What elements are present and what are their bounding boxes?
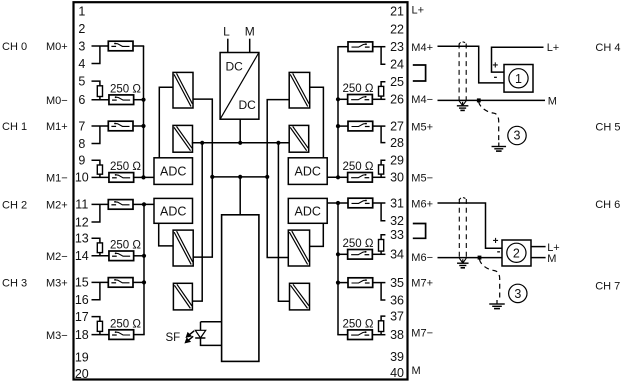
- junction dots on CH4/CH5 bus: [336, 97, 340, 179]
- svg-text:L+: L+: [547, 42, 560, 54]
- svg-text:17: 17: [75, 310, 89, 324]
- external jumper pins 24-25: [413, 65, 426, 81]
- wire pin 7 to filter: [92, 125, 109, 127]
- svg-text:3: 3: [78, 39, 85, 53]
- wire pin 37 to resistor: [381, 316, 385, 321]
- wire filter F7 to bus: [133, 125, 144, 127]
- svg-text:7: 7: [78, 119, 85, 133]
- svg-text:1: 1: [78, 4, 85, 18]
- wire barrier B4 right to vertical C: [192, 143, 202, 301]
- wire transducer plus to L+: [492, 47, 544, 72]
- wire ADC U3 top to barrier B5 right: [310, 87, 324, 158]
- resistor 250 Ohm CH4: [379, 86, 384, 96]
- svg-text:31: 31: [390, 196, 404, 210]
- svg-text:M: M: [245, 25, 255, 39]
- wire filter F11 to bus: [133, 203, 145, 205]
- resistor 250 Ohm CH5: [379, 165, 384, 174]
- svg-text:CH 5: CH 5: [595, 121, 620, 133]
- filter F31 (M6+): [348, 198, 373, 208]
- filter F34 (M6-): [348, 250, 373, 260]
- transducer 1 box: [504, 65, 533, 93]
- svg-text:M1+: M1+: [46, 121, 68, 133]
- wire filter F15 to bus: [133, 281, 145, 283]
- svg-text:19: 19: [75, 351, 89, 365]
- multiplexer bus CH6/CH7: [327, 203, 338, 335]
- wire pin 38 through resistor node to filter: [372, 334, 385, 336]
- svg-text:250 Ω: 250 Ω: [110, 240, 141, 252]
- svg-text:5: 5: [78, 74, 85, 88]
- isolation barrier B5 (right upper): [289, 72, 310, 108]
- controller backplane interface box: [222, 215, 259, 362]
- filter F11 (M2+): [108, 200, 133, 210]
- junction dots on CH6/CH7 bus: [336, 201, 340, 285]
- filter F18 (M3-): [109, 330, 134, 340]
- cable shield CH6 dashed: [459, 198, 466, 258]
- cable shield CH4 dashed: [459, 42, 466, 100]
- wire pin 18 through resistor node to filter: [92, 334, 110, 336]
- resistor 250 Ohm CH7: [379, 321, 384, 332]
- wire filter F34 to bus: [337, 253, 348, 255]
- wire pin 9 to resistor: [92, 160, 100, 165]
- svg-text:CH 2: CH 2: [2, 200, 27, 212]
- svg-text:ADC: ADC: [294, 165, 320, 179]
- power supply DC/DC converter: [220, 53, 259, 120]
- wire L pin to DC/DC: [227, 39, 229, 53]
- ground symbol 3 lower: [489, 300, 505, 309]
- svg-text:CH 7: CH 7: [595, 281, 620, 293]
- svg-text:L+: L+: [547, 242, 560, 254]
- svg-text:M2−: M2−: [46, 251, 68, 263]
- wire M4- to M: [438, 99, 546, 101]
- wire pin 34 through resistor node to filter: [372, 253, 385, 255]
- svg-text:10: 10: [75, 171, 89, 185]
- wire resistor to row 10: [99, 174, 101, 177]
- svg-text:CH 4: CH 4: [595, 42, 620, 54]
- svg-text:-: -: [497, 246, 501, 258]
- wire DC/DC output to bus1: [239, 119, 241, 143]
- svg-text:CH 6: CH 6: [595, 199, 620, 211]
- svg-text:4: 4: [78, 57, 85, 71]
- wire transducer 2 to L+: [531, 246, 546, 248]
- svg-text:37: 37: [390, 309, 404, 323]
- svg-text:250 Ω: 250 Ω: [343, 161, 374, 173]
- svg-text:29: 29: [390, 154, 404, 168]
- wire filter F3 to bus: [133, 45, 144, 47]
- wire LED loop top: [201, 321, 222, 323]
- LED SF diode: [195, 330, 206, 338]
- transducer 2 box: [502, 240, 531, 266]
- filter F30 (M5-): [348, 173, 373, 183]
- jumper pin 36 to pin 35: [381, 283, 385, 300]
- svg-text:ADC: ADC: [160, 204, 186, 218]
- svg-text:24: 24: [390, 58, 404, 72]
- svg-text:ADC: ADC: [160, 165, 186, 179]
- wire filter F27 to bus: [337, 125, 348, 127]
- svg-text:M5−: M5−: [411, 173, 433, 185]
- wire pin 3 to filter: [92, 45, 109, 47]
- svg-text:30: 30: [390, 171, 404, 185]
- transducer 2 circle: [507, 243, 526, 262]
- junction dots on CH0/CH1 bus: [141, 98, 145, 180]
- filter F23 (M4+): [348, 42, 373, 52]
- filter F7 (M1+): [108, 121, 133, 131]
- wire filter F30 to bus: [337, 176, 348, 178]
- ground symbol 3 upper: [492, 143, 507, 152]
- svg-text:6: 6: [78, 93, 85, 107]
- isolation barrier B7 (right lower): [288, 230, 309, 266]
- svg-text:16: 16: [75, 293, 89, 307]
- svg-text:M7+: M7+: [411, 277, 433, 289]
- svg-text:+: +: [492, 60, 498, 71]
- svg-text:M3+: M3+: [46, 278, 68, 290]
- svg-text:M0+: M0+: [46, 41, 68, 53]
- wire pin 26 through resistor node to filter: [372, 98, 385, 100]
- svg-text:ADC: ADC: [294, 204, 320, 218]
- op ADC U1 (CH0/CH1): [154, 158, 193, 185]
- svg-text:M6−: M6−: [411, 252, 433, 264]
- wire pin 6 through resistor node to filter: [92, 99, 110, 101]
- shield ground CH6: [457, 258, 469, 268]
- resistor 250 Ohm CH6: [379, 240, 384, 252]
- filter F26 (M4-): [348, 95, 373, 105]
- filter F35 (M7+): [348, 278, 373, 288]
- svg-text:2: 2: [513, 246, 520, 260]
- svg-text:26: 26: [390, 93, 404, 107]
- wire pin 10 through resistor node to filter: [92, 176, 110, 178]
- svg-text:M6+: M6+: [411, 198, 433, 210]
- wire filter F14 to bus: [133, 255, 145, 257]
- svg-text:M1−: M1−: [46, 173, 68, 185]
- wire pin 30 through resistor node to filter: [372, 176, 385, 178]
- svg-text:250 Ω: 250 Ω: [110, 83, 141, 95]
- svg-text:36: 36: [390, 293, 404, 307]
- svg-text:M: M: [548, 95, 557, 107]
- wire pin 13 to resistor: [92, 238, 100, 243]
- svg-text:L+: L+: [412, 5, 425, 17]
- svg-text:11: 11: [75, 198, 88, 212]
- svg-text:23: 23: [390, 40, 404, 54]
- svg-text:L: L: [223, 25, 230, 39]
- svg-text:9: 9: [78, 154, 85, 168]
- transducer 1 circle: [509, 69, 528, 88]
- junction square on M6- wire: [478, 256, 482, 260]
- junction dots bus2: [210, 175, 269, 179]
- svg-text:12: 12: [75, 215, 89, 229]
- wire pin 14 through resistor node to filter: [92, 255, 110, 257]
- svg-text:33: 33: [390, 228, 404, 242]
- svg-text:M: M: [547, 253, 556, 265]
- op ADC U3 (CH4/CH5): [288, 158, 327, 185]
- svg-text:40: 40: [390, 366, 404, 380]
- dashed equipotential line CH6: [480, 260, 500, 301]
- svg-text:M4−: M4−: [411, 94, 433, 106]
- isolation barrier B3 (left lower): [173, 230, 193, 266]
- wire pin 23 to filter: [373, 46, 386, 48]
- filter F15 (M3+): [108, 278, 133, 288]
- svg-text:M7−: M7−: [411, 328, 433, 340]
- LED emission arrows: [185, 331, 194, 343]
- wire filter F35 to bus: [337, 282, 348, 284]
- wire pin 29 to resistor: [381, 160, 385, 165]
- svg-text:250 Ω: 250 Ω: [343, 83, 374, 95]
- wire ADC U2 bottom to barrier B3 left: [159, 223, 173, 246]
- wire pin 11 to filter: [92, 203, 109, 205]
- wire M6+ to transducer 2 plus: [438, 203, 503, 248]
- wire M4+ to transducer minus: [438, 46, 505, 83]
- multiplexer bus CH2/CH3: [144, 204, 154, 334]
- svg-text:34: 34: [390, 248, 404, 262]
- wire bus2 to controller box: [239, 177, 241, 215]
- svg-text:39: 39: [390, 350, 404, 364]
- svg-text:CH 3: CH 3: [2, 278, 27, 290]
- wire pin 25 to resistor: [381, 82, 385, 87]
- svg-text:DC: DC: [239, 98, 257, 112]
- junction dots bus1: [200, 141, 280, 145]
- wire pin 35 to filter: [373, 282, 386, 284]
- svg-text:35: 35: [390, 276, 404, 290]
- external jumper pins 32-33: [413, 224, 426, 239]
- svg-text:M0−: M0−: [46, 95, 68, 107]
- wire resistor to row 14: [99, 253, 101, 256]
- svg-text:14: 14: [75, 249, 89, 263]
- svg-text:250 Ω: 250 Ω: [110, 161, 141, 173]
- module boundary box: [74, 2, 408, 379]
- wire M pin to DC/DC: [249, 39, 251, 53]
- wire pin 15 to filter: [92, 281, 109, 283]
- wire resistor to row 34: [380, 251, 382, 254]
- resistor 250 Ohm CH2: [97, 243, 102, 253]
- resistor 250 Ohm CH0: [97, 86, 102, 97]
- svg-text:M: M: [412, 365, 421, 377]
- jumper pin 4 to pin 3: [92, 46, 100, 64]
- svg-text:M5+: M5+: [411, 121, 433, 133]
- svg-text:M3−: M3−: [46, 330, 68, 342]
- jumper pin 8 to pin 7: [92, 126, 100, 144]
- svg-text:250 Ω: 250 Ω: [343, 318, 374, 330]
- isolation barrier B4 (left bottom): [173, 283, 192, 310]
- svg-text:25: 25: [390, 75, 404, 89]
- svg-text:CH 1: CH 1: [2, 121, 27, 133]
- filter F10 (M1-): [109, 173, 134, 183]
- filter F38 (M7-): [348, 330, 373, 340]
- isolation barrier B1 (left upper): [173, 72, 193, 108]
- svg-text:38: 38: [390, 328, 404, 342]
- wire pin 27 to filter: [373, 125, 386, 127]
- wire filter F10 to bus: [133, 176, 144, 178]
- resistor 250 Ohm CH3: [97, 321, 102, 331]
- svg-text:18: 18: [75, 328, 89, 342]
- svg-text:1: 1: [515, 72, 522, 86]
- wire filter F23 to bus: [337, 46, 348, 48]
- svg-text:2: 2: [78, 22, 85, 36]
- dashed equipotential line CH4: [479, 102, 499, 143]
- wire LED to loop bottom: [201, 338, 222, 345]
- jumper pin 12 to pin 11: [92, 204, 100, 222]
- svg-text:21: 21: [390, 4, 404, 18]
- filter F3 (M0+): [108, 41, 133, 51]
- svg-text:8: 8: [78, 137, 85, 151]
- svg-text:3: 3: [514, 287, 521, 301]
- jumper pin 28 to pin 27: [381, 126, 385, 143]
- wire ADC U4 bottom to barrier B7 right: [310, 223, 324, 246]
- jumper pin 24 to pin 23: [381, 47, 385, 64]
- filter F14 (M2-): [109, 251, 134, 261]
- isolation barrier B2 (left): [173, 125, 193, 152]
- junction dots on CH2/CH3 bus: [142, 202, 146, 284]
- wire filter F31 to bus: [337, 202, 348, 204]
- multiplexer bus CH4/CH5: [327, 47, 338, 178]
- filter F6 (M0-): [109, 95, 134, 105]
- wire pin 17 to resistor: [92, 317, 100, 322]
- svg-text:250 Ω: 250 Ω: [343, 238, 374, 250]
- wire M6- to transducer 2 minus: [438, 257, 503, 259]
- wire resistor to row 26: [380, 96, 382, 99]
- wire resistor to row 6: [99, 97, 101, 100]
- jumper pin 32 to pin 31: [381, 203, 385, 221]
- wire resistor to row 30: [380, 174, 382, 177]
- op ADC U4 (CH6/CH7): [288, 198, 327, 223]
- svg-text:13: 13: [75, 232, 89, 246]
- isolation barrier B8 (right bottom): [290, 283, 310, 310]
- wire ADC U1 top to barrier B1 left: [159, 87, 173, 158]
- svg-text:SF: SF: [166, 332, 181, 344]
- op ADC U2 (CH2/CH3): [154, 198, 193, 223]
- bus1 horizontal isolated supply: [192, 142, 289, 144]
- svg-text:250 Ω: 250 Ω: [110, 318, 141, 330]
- svg-text:DC: DC: [226, 60, 244, 74]
- svg-text:3: 3: [514, 128, 521, 142]
- svg-text:27: 27: [390, 119, 404, 133]
- wire resistor to row 38: [380, 332, 382, 335]
- svg-text:28: 28: [390, 136, 404, 150]
- svg-text:M2+: M2+: [46, 200, 68, 212]
- svg-text:22: 22: [390, 23, 404, 37]
- bus2 horizontal logic supply: [212, 176, 267, 178]
- filter F27 (M5+): [348, 121, 373, 131]
- wire pin 31 to filter: [373, 202, 386, 204]
- circle 3 lower: [509, 284, 527, 302]
- svg-text:M4+: M4+: [411, 42, 433, 54]
- shield ground CH4: [457, 101, 469, 111]
- wire filter F18 to bus: [133, 334, 145, 336]
- resistor 250 Ohm CH1: [97, 165, 102, 174]
- svg-text:CH 0: CH 0: [2, 41, 27, 53]
- jumper pin 16 to pin 15: [92, 282, 100, 299]
- multiplexer bus CH0/CH1: [144, 46, 155, 177]
- svg-text:15: 15: [75, 276, 89, 290]
- wire barrier B5 left down to barrier B7 left: [267, 100, 289, 258]
- wire filter F26 to bus: [337, 98, 348, 100]
- wire LED loop vertical: [200, 322, 202, 331]
- wire filter F38 to bus: [337, 334, 348, 336]
- svg-text:32: 32: [390, 214, 404, 228]
- circle 3 upper: [508, 126, 526, 144]
- wire barrier B8 left to vertical C-prime: [278, 143, 289, 301]
- svg-text:20: 20: [75, 367, 89, 381]
- wire filter F6 to bus: [133, 99, 144, 101]
- wire barrier B1 right down to barrier B3 right: [193, 99, 212, 257]
- wire transducer 2 to M: [531, 257, 546, 259]
- junction square on M4- wire: [477, 98, 481, 102]
- wire pin 5 to resistor: [92, 81, 100, 86]
- wire resistor to row 18: [99, 331, 101, 334]
- isolation barrier B6 (right): [289, 125, 309, 152]
- svg-text:-: -: [494, 71, 498, 83]
- wire pin 33 to resistor: [381, 235, 385, 240]
